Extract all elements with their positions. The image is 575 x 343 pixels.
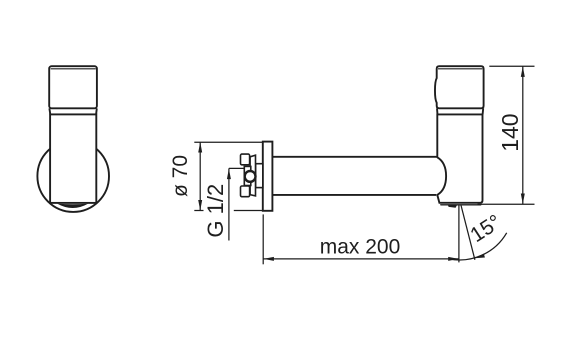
- svg-text:ø 70: ø 70: [169, 155, 192, 197]
- svg-text:G 1/2: G 1/2: [203, 184, 228, 238]
- svg-text:max 200: max 200: [320, 235, 401, 258]
- svg-text:140: 140: [497, 113, 523, 151]
